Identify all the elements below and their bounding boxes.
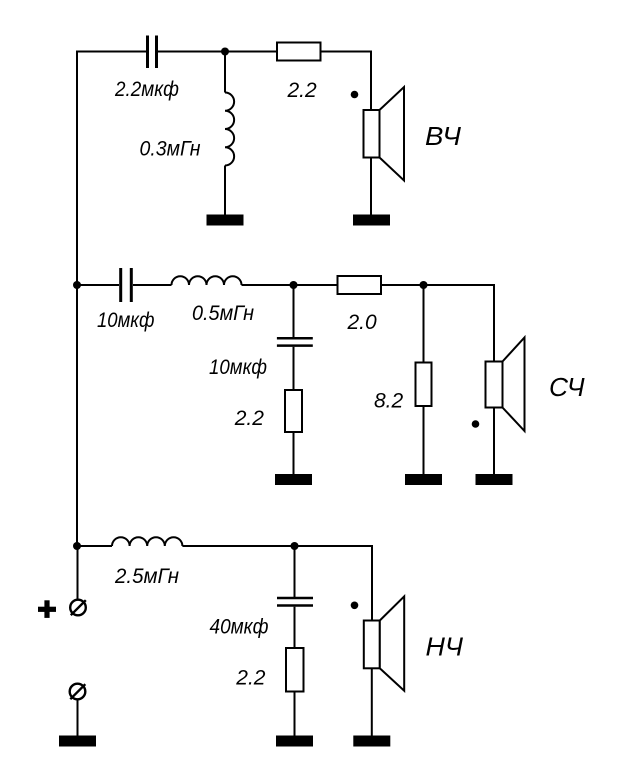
wire: C2 to L2 xyxy=(133,284,172,286)
resistor R2 2.0 xyxy=(338,276,382,294)
speaker BЧ xyxy=(364,87,405,181)
svg-text:2.0: 2.0 xyxy=(347,311,378,334)
svg-text:СЧ: СЧ xyxy=(549,372,585,402)
svg-text:НЧ: НЧ xyxy=(426,632,464,662)
ground: under BЧ speaker xyxy=(353,215,390,226)
svg-text:0.5мГн: 0.5мГн xyxy=(192,302,254,325)
wire: node down to C3 xyxy=(293,285,295,337)
ground: under HЧ speaker xyxy=(353,736,390,747)
capacitor C1 2.2mkf plates xyxy=(148,36,157,69)
capacitor C2 10mkf plates xyxy=(121,268,132,302)
polarity dot BЧ xyxy=(351,91,359,99)
wire: left input bus vertical xyxy=(76,51,78,547)
wire: R2 to CЧ speaker xyxy=(381,285,494,362)
node: bus to mid branch xyxy=(73,281,81,289)
svg-text:ВЧ: ВЧ xyxy=(425,121,462,151)
wire: bus junction down to input terminal xyxy=(77,546,79,600)
polarity dot CЧ xyxy=(472,420,480,428)
wire: node down to C4 xyxy=(294,546,296,597)
node: junction mid (L2/C3/R2) xyxy=(290,281,298,289)
wire: top rail from bus to C1 xyxy=(76,51,146,53)
svg-text:2.5мГн: 2.5мГн xyxy=(114,565,179,588)
wire: C1 to R1 xyxy=(158,51,277,53)
plus sign xyxy=(38,600,56,618)
capacitor C3 10mkf plates xyxy=(277,338,313,345)
ground: under CЧ speaker xyxy=(476,474,513,485)
wire: R5 to ground xyxy=(294,692,296,737)
ground: under minus terminal xyxy=(59,736,96,747)
resistor R4 8.2 xyxy=(416,363,432,407)
wire: node down to R4 xyxy=(423,285,425,363)
speaker HЧ xyxy=(364,596,404,690)
wire: minus terminal to ground xyxy=(77,700,79,737)
speaker CЧ xyxy=(486,338,525,432)
polarity dot HЧ xyxy=(351,602,359,610)
capacitor C4 40mkf plates xyxy=(277,598,313,606)
wire: C4 to R5 xyxy=(294,607,296,648)
svg-text:10мкф: 10мкф xyxy=(97,309,155,332)
wire: CЧ speaker to ground xyxy=(493,408,495,475)
wire: HЧ speaker to ground xyxy=(371,668,373,736)
resistor R3 2.2 xyxy=(285,390,302,432)
ground: under R3 xyxy=(275,474,312,485)
svg-text:8.2: 8.2 xyxy=(374,390,404,413)
svg-text:0.3мГн: 0.3мГн xyxy=(140,138,201,161)
input terminal plus xyxy=(70,600,86,616)
ground: under L1 xyxy=(207,215,244,226)
inductor L2 0.5mGn xyxy=(172,276,242,285)
node: junction top (C1/L1/R1) xyxy=(221,48,229,56)
wire: BЧ speaker to ground xyxy=(370,158,372,216)
svg-text:2.2: 2.2 xyxy=(234,407,265,430)
inductor L3 2.5mGn xyxy=(112,537,182,546)
node: junction bottom (L3/C4) xyxy=(291,542,299,550)
wire: C3 to R3 xyxy=(293,347,295,390)
ground: under R5 xyxy=(276,736,313,747)
inductor L1 0.3mGn xyxy=(225,52,234,216)
node: junction mid (R2/R4) xyxy=(420,281,428,289)
wire: L2 to R2 xyxy=(242,284,338,286)
svg-text:10мкф: 10мкф xyxy=(209,356,267,379)
wire: bus to L3 xyxy=(77,545,112,547)
wire: bus to C2 xyxy=(77,284,119,286)
wire: R1 to BЧ speaker xyxy=(321,52,372,111)
node: bus to bottom branch xyxy=(73,542,81,550)
svg-text:2.2мкф: 2.2мкф xyxy=(114,78,179,101)
ground: under R4 xyxy=(405,474,442,485)
svg-text:40мкф: 40мкф xyxy=(210,616,269,639)
svg-text:2.2: 2.2 xyxy=(235,667,266,690)
input terminal minus xyxy=(70,684,86,700)
resistor R1 2.2 xyxy=(277,43,321,61)
wire: R3 to ground xyxy=(293,432,295,475)
wire: R4 to ground xyxy=(423,406,425,475)
resistor R5 2.2 xyxy=(286,648,304,692)
wire: L3 to HЧ speaker xyxy=(182,546,372,621)
svg-text:2.2: 2.2 xyxy=(287,79,318,102)
